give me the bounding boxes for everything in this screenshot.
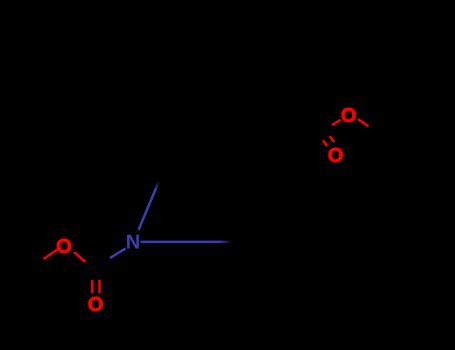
svg-text:O: O: [328, 145, 344, 167]
svg-text:O: O: [88, 294, 104, 316]
wire: C=O double bond dash 2: [330, 136, 335, 142]
wire: carbamate C=O double bond line 1: [91, 280, 94, 293]
wire: ester O to carbonyl C (half-bond, red): [332, 120, 341, 126]
wire: ester O to ethyl CH2 (half-bond, red): [358, 119, 369, 126]
wire: N to ring carbon, horizontal right (blue, fades at end): [141, 241, 233, 244]
wire: C=O double bond dash 1: [323, 140, 327, 146]
wire: methyl CH3 to O (half-bond, red): [44, 250, 58, 260]
svg-text:N: N: [126, 232, 140, 254]
svg-text:O: O: [341, 105, 357, 127]
wire: carbonyl C to N (half-bond, blue): [110, 249, 126, 259]
wire: carbamate C=O double bond line 2: [98, 280, 101, 293]
wire: carbamate O to carbonyl C (half-bond, red): [74, 252, 86, 262]
wire: N to ring carbon, diagonal up (blue, fades at top): [139, 181, 160, 230]
svg-text:O: O: [56, 236, 72, 258]
